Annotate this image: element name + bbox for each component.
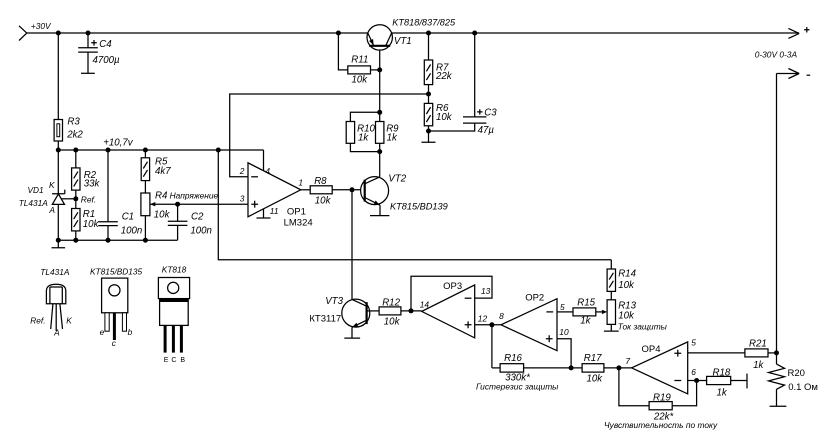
wire VT3 base to R12 xyxy=(367,310,380,312)
svg-text:7: 7 xyxy=(625,356,630,366)
junction rail C1 xyxy=(106,148,111,153)
resistor R20 current shunt xyxy=(769,364,785,389)
svg-text:VT1: VT1 xyxy=(394,36,412,47)
ground symbol left rail xyxy=(52,240,66,248)
svg-text:R11: R11 xyxy=(351,55,368,66)
svg-text:КТ3117: КТ3117 xyxy=(309,314,341,325)
svg-text:OP4: OP4 xyxy=(642,344,661,355)
wire R2 bottom to Ref node xyxy=(75,190,77,199)
wire R3 bottom to +10,7v rail xyxy=(57,141,59,150)
wire OP2 pin10 to R16 R17 node xyxy=(557,339,571,368)
resistor R9 xyxy=(376,122,384,144)
resistor R10 xyxy=(346,122,354,144)
wire R15 to R13 wiper xyxy=(596,311,603,313)
wire R14 to R13 xyxy=(610,291,612,299)
ground R13 xyxy=(604,324,619,331)
capacitor C2 xyxy=(177,204,179,221)
wire VT2 collector xyxy=(379,152,381,177)
junction bottom rail C1 xyxy=(106,238,111,243)
junction top rail R7 xyxy=(426,31,431,36)
svg-text:A: A xyxy=(53,328,60,338)
svg-text:1k: 1k xyxy=(717,388,728,399)
svg-text:6: 6 xyxy=(691,367,696,377)
svg-text:VT2: VT2 xyxy=(388,173,406,184)
resistor R14 xyxy=(607,269,615,291)
svg-text:5: 5 xyxy=(691,338,696,348)
transistor VT1 KT818/837/825 xyxy=(367,25,392,50)
wire R2 top xyxy=(75,150,77,168)
wire OP4 pin6 xyxy=(688,380,707,382)
svg-text:R20: R20 xyxy=(788,368,805,379)
output + terminal xyxy=(788,28,799,38)
junction Ref node xyxy=(73,196,78,201)
svg-text:22k: 22k xyxy=(435,71,453,82)
svg-text:OP1: OP1 xyxy=(287,207,306,218)
svg-text:R15: R15 xyxy=(577,298,595,309)
svg-text:Ref.: Ref. xyxy=(81,195,96,205)
svg-text:4700µ: 4700µ xyxy=(93,55,121,66)
svg-text:11: 11 xyxy=(270,206,279,216)
svg-text:KT818/837/825: KT818/837/825 xyxy=(392,18,456,28)
svg-text:4: 4 xyxy=(265,166,270,176)
svg-text:C3: C3 xyxy=(484,107,497,118)
output - terminal xyxy=(777,69,800,79)
svg-text:100n: 100n xyxy=(190,226,212,237)
svg-text:10: 10 xyxy=(559,327,569,337)
wire R3 top xyxy=(57,33,59,120)
svg-text:10k: 10k xyxy=(352,75,369,86)
ground VT3 emitter xyxy=(344,337,360,339)
wire R4 wiper to OP1 pin3 xyxy=(150,203,248,205)
junction R9 R10 bottom xyxy=(377,149,382,154)
resistor R6 xyxy=(424,103,432,125)
junction bottom rail VD1 xyxy=(56,238,61,243)
svg-text:10k: 10k xyxy=(83,219,100,230)
junction VT1 base R11 xyxy=(377,67,382,72)
svg-text:OP3: OP3 xyxy=(443,281,462,292)
resistor R11 xyxy=(348,66,371,74)
junction R6 C3 ground xyxy=(426,129,431,134)
svg-text:10k: 10k xyxy=(587,374,604,385)
resistor R16 xyxy=(500,364,523,372)
wire OP3 pin13 feedback loop xyxy=(411,276,492,311)
junction R17 OP4 R19 xyxy=(616,365,621,370)
svg-text:33k: 33k xyxy=(84,179,101,190)
resistor R8 xyxy=(310,186,332,194)
wire R9 R10 top junction xyxy=(350,112,379,121)
ground OP1 pin 11 xyxy=(257,209,271,218)
svg-text:4k7: 4k7 xyxy=(155,166,171,177)
wire VT1 base down to R11 xyxy=(379,46,381,113)
shunt regulator VD1 TL431A xyxy=(52,190,65,194)
wire R12 to OP3 output xyxy=(401,310,422,312)
svg-text:C1: C1 xyxy=(122,211,134,222)
svg-text:R19: R19 xyxy=(653,393,671,404)
wire VT2 emitter xyxy=(379,205,381,215)
svg-text:E: E xyxy=(164,357,169,364)
svg-text:10k: 10k xyxy=(618,310,635,321)
ground R6 C3 xyxy=(422,131,436,142)
wire R9 R10 bottom junction xyxy=(350,143,379,151)
ground VT2 emitter xyxy=(370,215,389,217)
svg-text:R4: R4 xyxy=(155,190,168,201)
svg-text:R16: R16 xyxy=(504,353,522,364)
wire OP1 V+ pin4 xyxy=(263,150,265,171)
svg-text:1k: 1k xyxy=(387,133,398,144)
svg-text:R21: R21 xyxy=(749,338,767,349)
wire +30V top rail left of VT1 xyxy=(27,32,368,34)
svg-text:10k: 10k xyxy=(618,280,635,291)
resistor R2 xyxy=(72,168,80,190)
node +10,7v rail xyxy=(58,149,263,151)
resistor R1 xyxy=(72,209,80,231)
svg-text:TL431A: TL431A xyxy=(19,198,49,208)
wire R16 left xyxy=(492,367,500,369)
wire VT3 emitter xyxy=(351,327,353,338)
transistor VT3 KT3117 xyxy=(342,299,370,327)
junction R7 R6 feedback xyxy=(426,92,431,97)
svg-text:10k: 10k xyxy=(384,317,401,328)
wire VT3 collector to VT2 base node xyxy=(351,190,353,300)
svg-text:Напряжение: Напряжение xyxy=(170,191,219,201)
svg-text:KT815/BD135: KT815/BD135 xyxy=(90,267,143,277)
svg-text:KT815/BD139: KT815/BD139 xyxy=(390,202,448,212)
ground C4 xyxy=(81,72,95,74)
junction rail R2 xyxy=(73,148,78,153)
junction top rail C3 xyxy=(472,31,477,36)
wire R8 to VT2 base xyxy=(332,189,365,191)
wire R17 to OP4 xyxy=(604,367,632,369)
wire OP1 pin2 feedback xyxy=(230,94,429,177)
junction R8 VT3 collector xyxy=(350,187,355,192)
wire R21 to sense node xyxy=(768,352,777,354)
svg-text:R8: R8 xyxy=(314,176,327,187)
junction node 8 xyxy=(489,322,494,327)
svg-text:0.1 Ом: 0.1 Ом xyxy=(788,382,818,393)
wire R20 bottom xyxy=(776,389,778,406)
wire R11 right xyxy=(371,69,380,71)
svg-text:2: 2 xyxy=(239,166,245,176)
resistor R12 xyxy=(379,307,401,315)
svg-text:C2: C2 xyxy=(191,211,204,222)
wire R4 bottom xyxy=(144,216,146,241)
svg-text:8: 8 xyxy=(499,311,504,321)
svg-text:A: A xyxy=(48,205,55,215)
svg-text:e: e xyxy=(100,327,105,337)
svg-text:R3: R3 xyxy=(67,117,80,128)
wire R6 bottom xyxy=(428,126,430,131)
svg-text:12: 12 xyxy=(478,314,488,324)
svg-text:+10,7v: +10,7v xyxy=(103,138,134,149)
svg-text:14: 14 xyxy=(420,300,430,310)
svg-text:5: 5 xyxy=(560,302,565,312)
svg-text:TL431A: TL431A xyxy=(40,267,70,277)
terminator bar xyxy=(746,374,748,389)
svg-text:2k2: 2k2 xyxy=(66,130,83,141)
svg-text:K: K xyxy=(66,316,72,326)
junction bottom rail R1 xyxy=(73,238,78,243)
op-amp OP1 LM324 xyxy=(248,163,301,217)
svg-text:13: 13 xyxy=(481,286,491,296)
wire OP1 output xyxy=(301,189,311,191)
wire R14 top lead xyxy=(610,260,612,269)
svg-text:B: B xyxy=(180,357,185,364)
junction rail drop xyxy=(216,148,221,153)
svg-text:R18: R18 xyxy=(713,368,731,379)
wire R11 left xyxy=(338,33,347,70)
op-amp OP4 xyxy=(632,342,688,394)
svg-text:R17: R17 xyxy=(584,353,602,364)
wire VD1 cathode xyxy=(57,150,59,194)
svg-text:KT818: KT818 xyxy=(162,265,187,275)
svg-text:10k: 10k xyxy=(315,195,332,206)
wire OP4 output to R19 xyxy=(619,368,649,406)
wire R1 bottom xyxy=(75,231,77,240)
wire OP2 pin5 to R15 xyxy=(557,311,573,313)
resistor R15 xyxy=(573,308,596,316)
capacitor C4 xyxy=(87,33,89,48)
resistor R5 xyxy=(141,158,149,181)
resistor R21 xyxy=(745,349,768,357)
svg-text:OP2: OP2 xyxy=(525,293,544,304)
op-amp OP3 xyxy=(422,285,475,338)
svg-text:C4: C4 xyxy=(99,39,112,50)
junction pin6 R18 R19 xyxy=(694,378,699,383)
transistor VT2 KT815/BD139 xyxy=(361,177,389,205)
resistor R18 xyxy=(707,376,731,384)
junction R21 R20 sense xyxy=(774,350,779,355)
junction top rail R3 xyxy=(56,31,61,36)
svg-text:R14: R14 xyxy=(618,269,636,280)
potentiometer R13 current limit xyxy=(607,300,615,325)
wire R7 top xyxy=(428,33,430,60)
junction rail R3 VD1 xyxy=(56,148,61,153)
wire R19 to pin6 node xyxy=(672,381,696,406)
wire R5 to R4 xyxy=(144,181,146,193)
svg-text:LM324: LM324 xyxy=(284,218,313,229)
svg-text:Гистерезис защиты: Гистерезис защиты xyxy=(476,382,558,392)
svg-text:1k: 1k xyxy=(580,316,591,327)
wire R6 top xyxy=(428,94,430,103)
junction bottom rail R4 xyxy=(143,238,148,243)
wire bottom ground rail xyxy=(58,239,177,241)
svg-text:47µ: 47µ xyxy=(478,125,495,136)
svg-text:0-30V 0-3A: 0-30V 0-3A xyxy=(755,50,798,60)
svg-text:K: K xyxy=(49,180,55,190)
wire node 8 down to R16 xyxy=(491,325,493,368)
wire OP3 pin12 to node 8 xyxy=(475,324,501,326)
resistor R3 xyxy=(54,120,62,142)
wire R5 top xyxy=(144,150,146,158)
svg-text:VD1: VD1 xyxy=(28,185,44,195)
capacitor C1 xyxy=(107,150,109,222)
wire R16 to R17 xyxy=(524,367,583,369)
wire R18 right to terminator xyxy=(731,380,747,382)
wire OP4 pin5 to R21 xyxy=(688,352,745,354)
ground R20 xyxy=(770,405,787,407)
resistor R17 xyxy=(582,364,604,372)
junction wiper C2 xyxy=(175,202,180,207)
svg-text:R12: R12 xyxy=(382,297,400,308)
svg-text:10k: 10k xyxy=(436,112,453,123)
wire +10,7v drop down xyxy=(218,150,611,260)
svg-text:Чувствительность по току: Чувствительность по току xyxy=(604,420,718,430)
wire top rail right of VT1 to + output xyxy=(392,32,799,34)
svg-text:10k: 10k xyxy=(154,210,171,221)
potentiometer R4 voltage adjust xyxy=(141,193,150,216)
wire - output down to R20 xyxy=(776,74,778,365)
svg-text:1k: 1k xyxy=(753,360,764,371)
resistor R7 xyxy=(424,60,432,85)
junction R9 R10 top xyxy=(377,110,382,115)
svg-text:c: c xyxy=(112,338,117,348)
wire R1 top xyxy=(75,199,77,209)
svg-text:b: b xyxy=(128,327,133,337)
input terminal +30V xyxy=(19,26,27,41)
svg-text:+30V: +30V xyxy=(31,21,52,31)
svg-text:Ток защиты: Ток защиты xyxy=(618,321,667,331)
capacitor C3 xyxy=(474,33,476,117)
svg-text:1: 1 xyxy=(298,178,303,188)
junction OP3 output feedback xyxy=(409,308,414,313)
junction top rail R11 xyxy=(336,31,341,36)
op-amp OP2 xyxy=(501,299,557,351)
junction rail R5 xyxy=(143,148,148,153)
junction top rail C4 xyxy=(86,31,91,36)
svg-text:Ref.: Ref. xyxy=(30,316,45,326)
svg-text:3: 3 xyxy=(240,193,245,203)
wire VD1 anode xyxy=(57,204,59,240)
svg-text:VT3: VT3 xyxy=(325,296,343,307)
wire R7 bottom xyxy=(428,85,430,94)
svg-text:1k: 1k xyxy=(358,133,369,144)
resistor R19 xyxy=(649,402,672,410)
svg-text:C: C xyxy=(171,357,176,364)
svg-text:100n: 100n xyxy=(121,226,143,237)
junction R16 R17 pin10 xyxy=(569,365,574,370)
